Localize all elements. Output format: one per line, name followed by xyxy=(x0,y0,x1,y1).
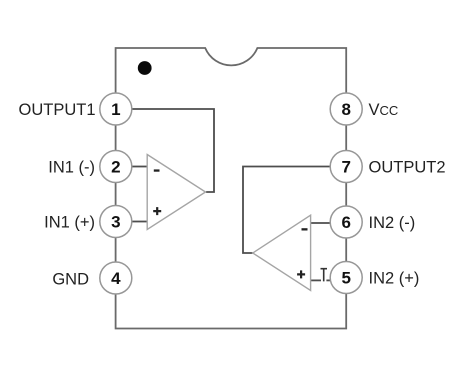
svg-text:VCC: VCC xyxy=(369,101,399,119)
pin 6 circle xyxy=(330,206,362,238)
pin 4 circle xyxy=(100,262,132,294)
pin 2 circle xyxy=(100,151,132,183)
svg-text:5: 5 xyxy=(341,269,350,288)
U2 plus sign xyxy=(297,270,305,278)
svg-text:6: 6 xyxy=(341,213,350,232)
svg-text:2: 2 xyxy=(111,158,120,177)
svg-text:GND: GND xyxy=(52,270,89,288)
svg-text:8: 8 xyxy=(341,100,350,119)
T-shaped mark on pin5 wire xyxy=(321,269,328,282)
IC package body outline with top notch xyxy=(116,48,347,329)
op-amp U2 triangle (mirrored, output at left) xyxy=(253,215,311,290)
wire pin1 to op-amp U1 output xyxy=(132,109,214,192)
svg-text:OUTPUT2: OUTPUT2 xyxy=(369,158,446,176)
pin 8 circle xyxy=(330,93,362,125)
op-amp U1 triangle xyxy=(147,155,205,230)
wire pin3 to U1 non-inverting input xyxy=(132,221,147,223)
svg-text:IN2 (+): IN2 (+) xyxy=(369,269,420,287)
U1 plus sign xyxy=(153,207,161,215)
svg-text:7: 7 xyxy=(341,158,350,177)
svg-text:4: 4 xyxy=(111,269,121,288)
pin 3 circle xyxy=(100,206,132,238)
svg-text:3: 3 xyxy=(111,213,120,232)
svg-text:OUTPUT1: OUTPUT1 xyxy=(18,101,95,119)
svg-text:IN1 (-): IN1 (-) xyxy=(48,158,95,176)
U1 minus sign xyxy=(154,169,160,171)
pin 7 circle xyxy=(330,151,362,183)
wire pin7 to op-amp U2 output xyxy=(243,167,331,254)
U2 minus sign xyxy=(302,228,308,230)
svg-text:IN1 (+): IN1 (+) xyxy=(44,213,95,231)
pin-1 indicator dot xyxy=(138,61,152,75)
wire pin5 to U2 non-inverting input (right segment) xyxy=(326,279,330,281)
pin 1 circle xyxy=(100,93,132,125)
wire pin6 to U2 inverting input xyxy=(311,222,331,224)
pin 5 circle xyxy=(330,262,362,294)
svg-text:1: 1 xyxy=(111,100,120,119)
wire pin5 to U2 non-inverting input (left segment) xyxy=(311,279,321,281)
wire pin2 to U1 inverting input xyxy=(132,166,147,168)
svg-text:IN2 (-): IN2 (-) xyxy=(369,214,416,232)
